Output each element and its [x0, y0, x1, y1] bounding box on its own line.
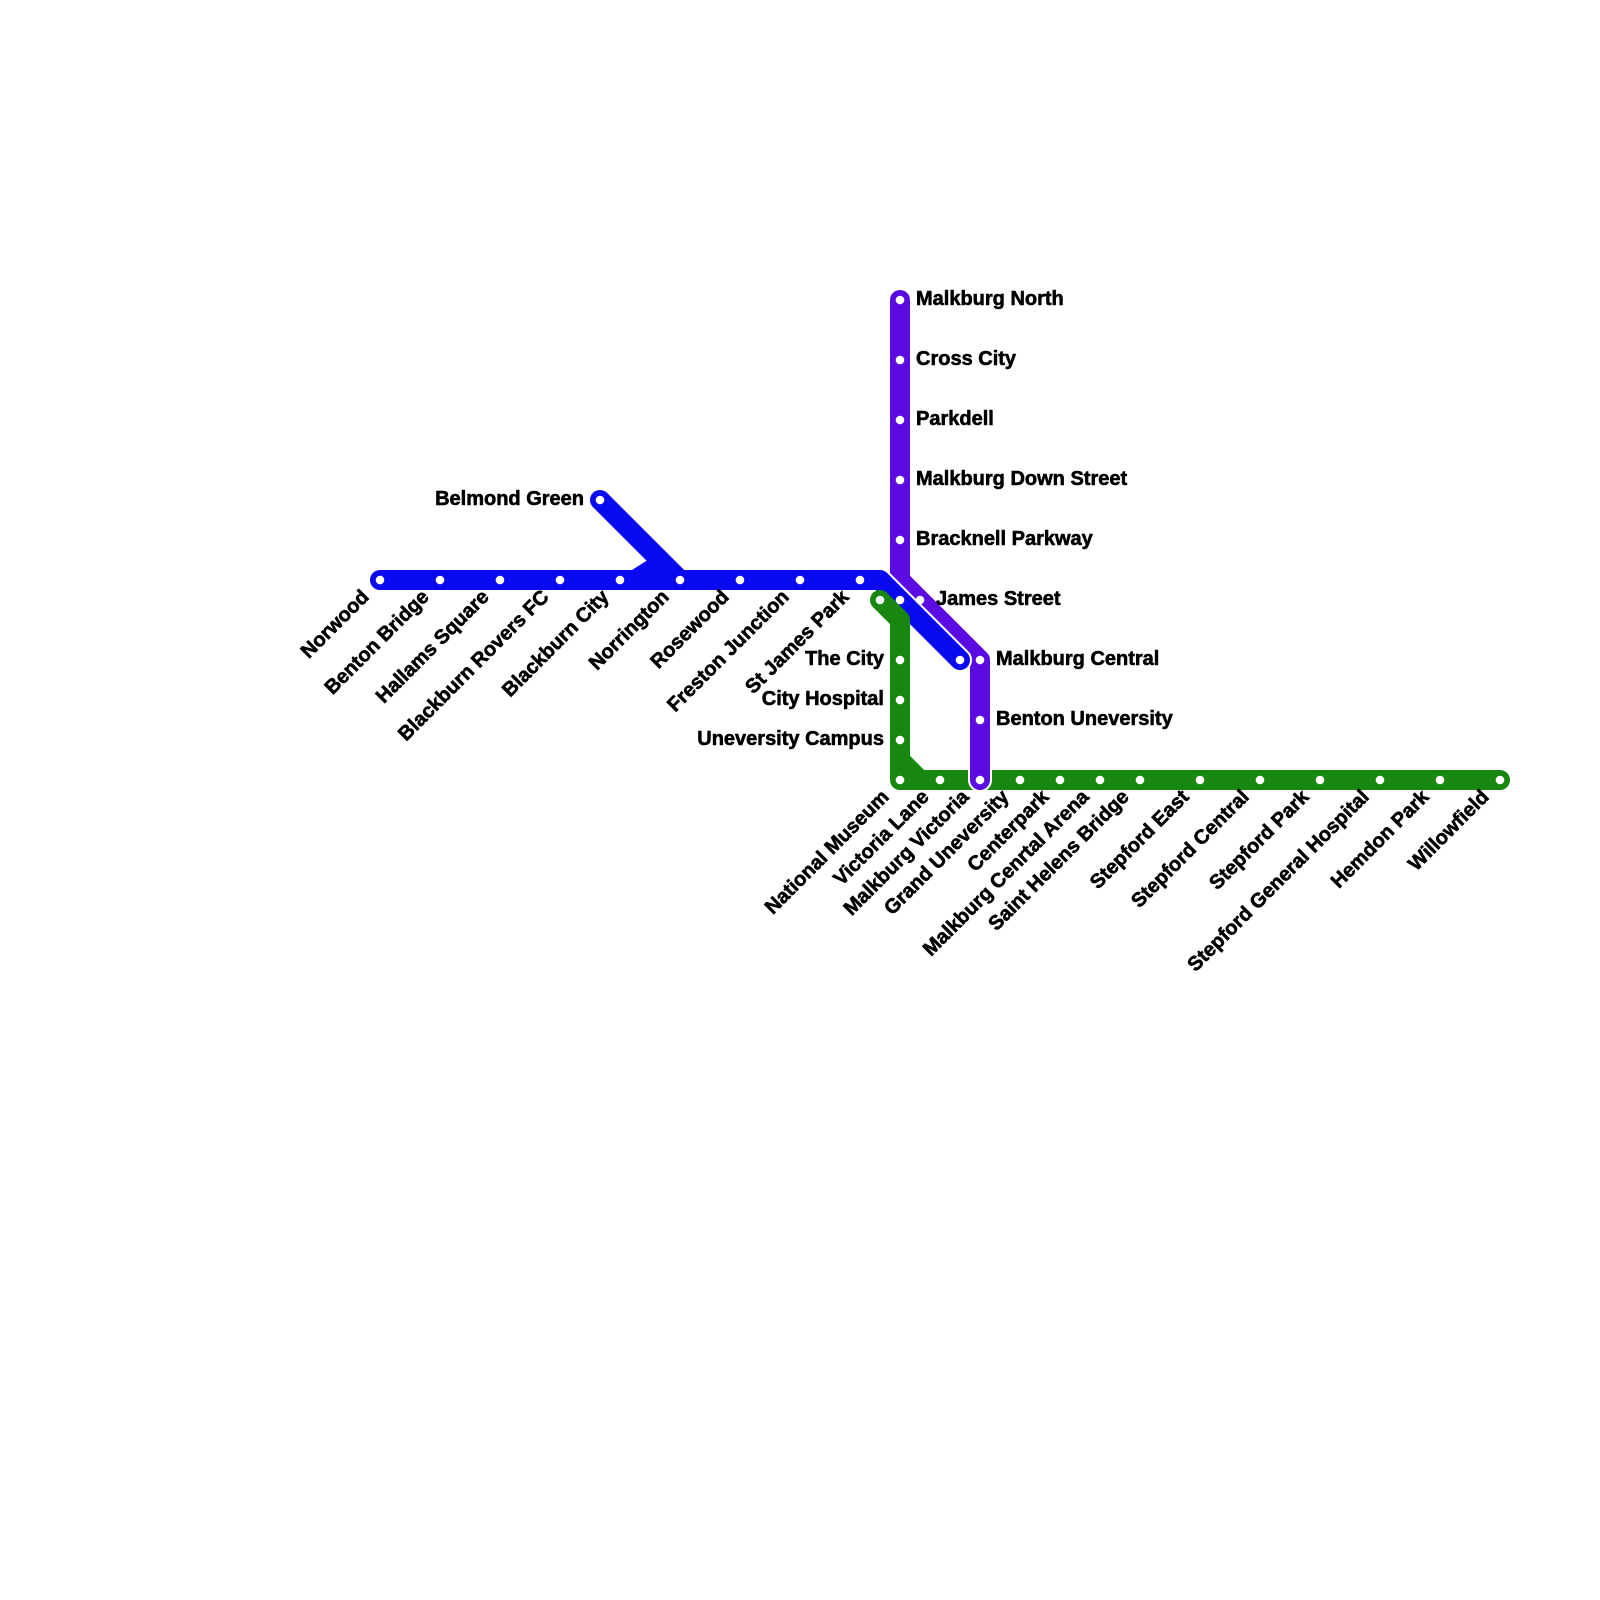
station dot Victoria Lane: [936, 776, 945, 785]
station dot City Hospital: [896, 696, 905, 705]
station dot Hemdon Park: [1436, 776, 1445, 785]
purple line (Malkburg North - Malkburg Victoria): [900, 300, 980, 780]
blue line (Norwood - Malkburg Central): [380, 580, 960, 660]
station dot Malkburg Cenrtal Arena: [1096, 776, 1105, 785]
station dot Stepford General Hospital: [1376, 776, 1385, 785]
green line (James Street - Willowfield): [880, 600, 1500, 780]
station dot Norrington: [676, 576, 685, 585]
station dot The City: [896, 656, 905, 665]
station dot James Street purple: [916, 596, 925, 605]
station dot Stepford East: [1196, 776, 1205, 785]
station dot James Street blue: [896, 596, 905, 605]
station dot Stepford Park: [1316, 776, 1325, 785]
station dot Uneversity Campus: [896, 736, 905, 745]
station dot Malkburg Down Street: [896, 476, 905, 485]
svg-text:Belmond Green: Belmond Green: [435, 488, 584, 510]
station dot Saint Helens Bridge: [1136, 776, 1145, 785]
station dot Malkburg Victoria: [976, 776, 985, 785]
svg-text:Cross City: Cross City: [916, 348, 1017, 370]
station dot Centerpark: [1056, 776, 1065, 785]
svg-text:Benton Uneversity: Benton Uneversity: [996, 708, 1174, 730]
purple overpass casing: [968, 760, 992, 792]
station dot Blackburn City: [616, 576, 625, 585]
purple overpass segment: [970, 740, 990, 780]
station dot Benton Bridge: [436, 576, 445, 585]
svg-text:Bracknell Parkway: Bracknell Parkway: [916, 528, 1094, 550]
svg-text:Malkburg Down Street: Malkburg Down Street: [916, 468, 1127, 490]
station dot St James Park: [856, 576, 865, 585]
green corner chamfer: [900, 760, 920, 780]
station dot Hallams Square: [496, 576, 505, 585]
station dot James Street green: [876, 596, 885, 605]
station dot Malkburg Central blue: [956, 656, 965, 665]
station dot Malkburg Central purple: [976, 656, 985, 665]
station dot Blackburn Rovers FC: [556, 576, 565, 585]
svg-text:The City: The City: [805, 648, 885, 670]
blue branch junction wedge: [632, 556, 680, 580]
purple line casing: [900, 300, 980, 780]
blue branch casing: [600, 500, 680, 580]
station dot Belmond Green: [596, 496, 605, 505]
station dot Norwood: [376, 576, 385, 585]
station dot Parkdell: [896, 416, 905, 425]
station dot National Museum: [896, 776, 905, 785]
station dot Willowfield: [1496, 776, 1505, 785]
blue line casing: [380, 580, 960, 660]
station dot Freston Junction: [796, 576, 805, 585]
svg-text:Malkburg North: Malkburg North: [916, 288, 1064, 310]
svg-text:Parkdell: Parkdell: [916, 408, 994, 430]
svg-text:City Hospital: City Hospital: [762, 688, 884, 710]
svg-text:Malkburg Central: Malkburg Central: [996, 648, 1159, 670]
station dot Malkburg North: [896, 296, 905, 305]
station dot Benton Uneversity: [976, 716, 985, 725]
station dot Stepford Central: [1256, 776, 1265, 785]
station dot Cross City: [896, 356, 905, 365]
station dot Bracknell Parkway: [896, 536, 905, 545]
station dot Rosewood: [736, 576, 745, 585]
blue branch (Belmond Green): [600, 500, 680, 580]
svg-text:James Street: James Street: [936, 588, 1061, 610]
svg-text:Uneversity Campus: Uneversity Campus: [697, 728, 884, 750]
station dot Grand Uneversity: [1016, 776, 1025, 785]
